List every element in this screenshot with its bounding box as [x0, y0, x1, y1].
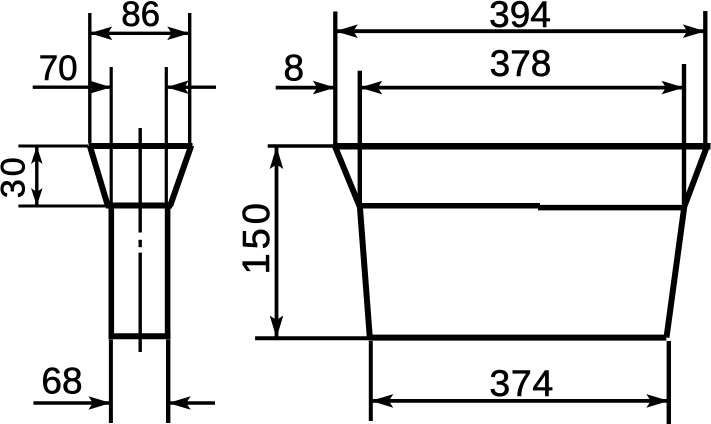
dim 86: dimension line — [90, 32, 190, 35]
svg-text:378: 378 — [490, 43, 552, 84]
dim 68: right dimension line — [168, 401, 215, 405]
dim 30: dimension line — [35, 146, 38, 206]
dim 150: bottom arrowhead — [270, 316, 284, 339]
right view: inner flange-bottom line (right segment) — [538, 205, 684, 211]
svg-text:374: 374 — [489, 362, 553, 404]
dim 394: right extension line — [703, 11, 707, 143]
dim 86: left extension line — [88, 13, 91, 143]
dim 30: bottom extension line — [18, 205, 106, 208]
left view: inner-right edge / 70 extension line — [165, 67, 168, 203]
dim 150: top arrowhead — [270, 147, 284, 170]
left view: stem left wall outline — [109, 203, 115, 339]
dim 70: left dimension line — [33, 85, 112, 88]
dim 68: left dimension line — [33, 401, 111, 405]
svg-text:68: 68 — [41, 361, 82, 402]
dim 30: bottom arrowhead — [31, 188, 43, 206]
left view: inner-left edge / 70 extension line — [110, 67, 113, 203]
dim 394: left arrowhead — [335, 24, 358, 38]
dim 150: bottom extension line — [255, 336, 372, 340]
dim 374: left extension line — [369, 341, 373, 421]
dim 68: right arrowhead (points left) — [168, 396, 191, 410]
dim 150: dimension line — [275, 147, 279, 339]
dim 150: top extension line — [268, 144, 333, 148]
dim 30: top arrowhead — [31, 146, 43, 164]
left view: flange left slant outline — [90, 146, 108, 207]
left view: stem right wall outline — [165, 203, 171, 339]
right view: bottom outline — [369, 335, 667, 341]
svg-text:394: 394 — [489, 0, 551, 35]
right view: inner flange-bottom line (left segment) — [359, 203, 540, 209]
dim 374: right arrowhead — [646, 394, 669, 408]
svg-text:8: 8 — [284, 48, 305, 89]
left view: centerline dot — [138, 240, 141, 247]
dim 378: right extension line — [682, 64, 686, 204]
dim 86: right extension line — [188, 13, 191, 143]
dim 394: left extension line — [333, 12, 337, 144]
dim 394: dimension line — [335, 29, 705, 33]
dim 374: dimension line — [371, 399, 669, 403]
dim 378: left arrowhead — [360, 81, 383, 95]
right view: top rim outline — [333, 143, 711, 150]
left view: centerline long dash (bottom) — [138, 253, 141, 352]
svg-text:30: 30 — [0, 154, 32, 198]
dim 70: left arrowhead (points right) — [89, 80, 112, 94]
svg-text:150: 150 — [236, 199, 278, 274]
dim 8: arrowhead (points right) — [313, 81, 336, 95]
dim 70: right arrowhead (points left) — [166, 80, 189, 94]
left view: flange bottom outline — [106, 203, 172, 209]
dim 86: left arrowhead — [90, 27, 113, 41]
left view: flange top outline — [89, 143, 193, 149]
dim 68: right extension line — [166, 340, 170, 424]
dim 374: right extension line — [667, 341, 671, 424]
dim 394: right arrowhead — [683, 24, 706, 38]
dim 70: right dimension line — [166, 85, 216, 88]
dim 8: dimension line — [276, 86, 336, 90]
dim 378: right arrowhead — [662, 81, 685, 95]
dim 30: top extension line — [18, 145, 88, 148]
dim 374: left arrowhead — [371, 394, 394, 408]
right view: right slant outline (flange taper + wall) — [667, 146, 708, 338]
svg-text:70: 70 — [39, 49, 78, 88]
dim 378: left extension line — [358, 71, 362, 204]
left view: flange right slant outline — [170, 146, 191, 207]
svg-text:86: 86 — [121, 0, 160, 34]
left view: centerline long dash (top) — [138, 128, 141, 233]
dim 68: left arrowhead (points right) — [88, 396, 111, 410]
left view: stem bottom outline — [109, 333, 171, 339]
dim 86: right arrowhead — [167, 27, 190, 41]
right view: left slant outline (flange taper + wall) — [335, 146, 370, 338]
dim 68: left extension line — [109, 340, 113, 424]
dim 378: dimension line — [360, 86, 684, 90]
